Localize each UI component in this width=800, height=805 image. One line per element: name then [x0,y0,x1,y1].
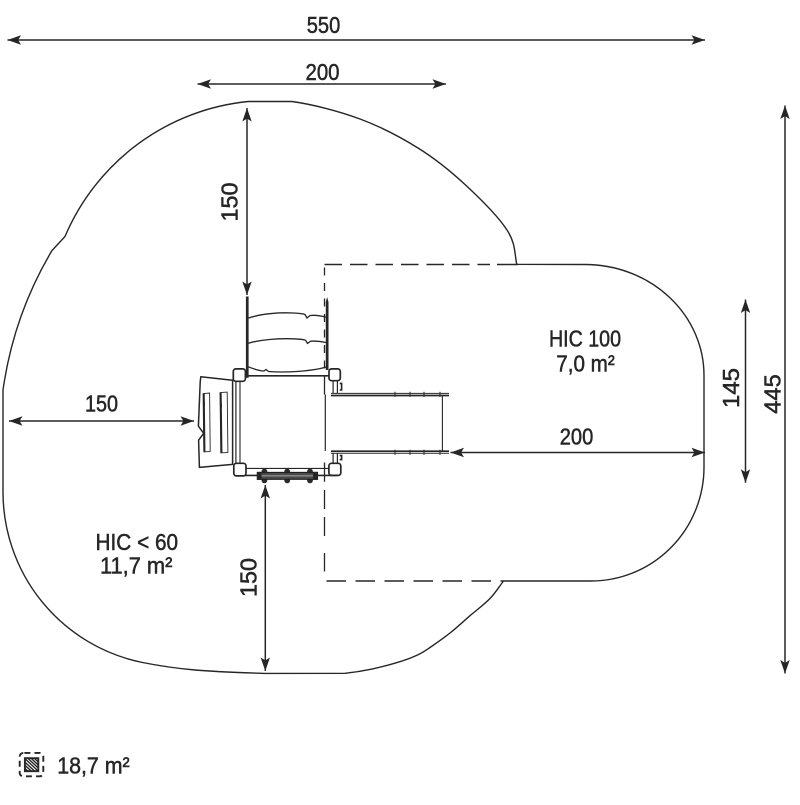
slide (right) [325,383,449,459]
dashed-edge segment at slide entrance [324,376,326,394]
platform right edge inner [332,381,334,464]
svg-text:18,7 m²: 18,7 m² [57,753,130,779]
slide entrance edge [324,395,326,452]
svg-text:445: 445 [760,374,786,414]
area icon (dashed square with hatch) [20,753,44,776]
steps (bottom): bolts [262,469,313,484]
platform deck [236,376,338,476]
dimension: 150 vertical upper [217,108,248,295]
platform left edge outer [235,376,237,476]
platform corner post bottom-left [234,463,246,476]
HIC 100 dashed zone boundary: left edge upper [324,268,326,375]
slide end bar [441,396,443,452]
svg-text:145: 145 [718,368,744,408]
platform bottom edge inner [240,467,333,469]
dimension: 150 vertical lower [236,485,266,671]
safety-area blob outline [3,102,704,674]
svg-text:11,7 m²: 11,7 m² [100,553,173,579]
platform right edge outer [336,381,338,464]
platform left edge inner [239,381,241,469]
solid join of top edge at blob junction [497,264,518,266]
svg-text:200: 200 [306,59,340,85]
net post right [326,297,329,370]
HIC 100 dashed zone boundary: bottom edge [327,580,504,582]
platform top edge [240,375,333,377]
wall slat 1 [203,393,210,452]
slide top rail [331,392,449,394]
HIC 100 dashed zone boundary: top edge [325,264,491,266]
svg-text:150: 150 [217,183,243,222]
HIC 100 dashed zone boundary: left edge lower [324,463,326,572]
net post left [246,297,249,378]
svg-text:HIC < 60: HIC < 60 [96,529,179,555]
dimension: 150 horizontal left [9,391,194,422]
slide rail ticks [395,392,440,455]
wall slat 2 [220,392,228,453]
platform corner post bottom-right [329,463,341,475]
dimension: 550 top [8,12,706,40]
slide mount bracket top [340,383,342,390]
steps bar [257,472,317,479]
svg-text:200: 200 [560,424,594,450]
dimension: 200 right (slide) [451,424,706,453]
platform corner post top-right [329,369,340,381]
platform bottom edge outer [236,474,338,476]
climbing net wavy bands [248,313,328,372]
slide bottom rail [331,450,449,452]
svg-text:150: 150 [85,391,118,417]
dimension: 200 top [198,59,447,85]
slide mount bracket bottom [340,456,342,460]
svg-text:HIC 100: HIC 100 [549,326,621,352]
climbing wall (left of platform) [198,377,232,468]
dimension: 145 right [718,300,746,483]
dimension: 445 right [760,106,786,674]
svg-text:550: 550 [307,12,341,38]
svg-text:150: 150 [236,558,262,597]
platform corner post top-left [233,369,245,381]
svg-text:7,0 m²: 7,0 m² [556,351,615,377]
